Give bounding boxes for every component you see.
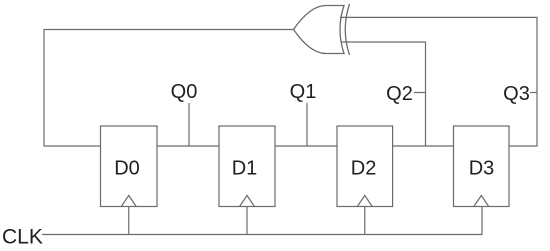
svg-text:Q1: Q1 — [290, 81, 317, 103]
wire data D2 to D3 — [393, 145, 454, 147]
flip-flop D1 — [219, 126, 275, 207]
wire data D0 to D1 — [157, 145, 219, 147]
wire CLK bus — [42, 207, 482, 235]
wire XOR top input from Q3 — [340, 17, 537, 146]
wire XOR bottom input from Q2 — [341, 42, 426, 146]
wire clock drop D1 — [246, 207, 248, 235]
flip-flop D3 — [454, 126, 510, 207]
svg-text:Q2: Q2 — [386, 83, 413, 105]
node Q2 stub — [414, 92, 426, 94]
node Q1 stub — [306, 103, 308, 146]
op-amp XOR gate U1 — [294, 4, 350, 55]
svg-text:Q3: Q3 — [503, 83, 530, 105]
wire feedback top (XOR output to left) — [44, 30, 294, 147]
svg-text:CLK: CLK — [2, 225, 43, 248]
wire clock drop D0 — [128, 207, 130, 235]
wire data D1 to D2 — [275, 145, 337, 147]
svg-text:D0: D0 — [114, 158, 140, 180]
node Q3 stub — [530, 92, 537, 94]
flip-flop D2 — [337, 126, 393, 207]
svg-text:D2: D2 — [351, 158, 377, 180]
node Q0 stub — [188, 103, 190, 146]
wire clock drop D2 — [364, 207, 366, 235]
svg-text:Q0: Q0 — [171, 81, 198, 103]
flip-flop D0 — [101, 126, 158, 207]
svg-text:D1: D1 — [232, 158, 258, 180]
svg-text:D3: D3 — [469, 158, 495, 180]
